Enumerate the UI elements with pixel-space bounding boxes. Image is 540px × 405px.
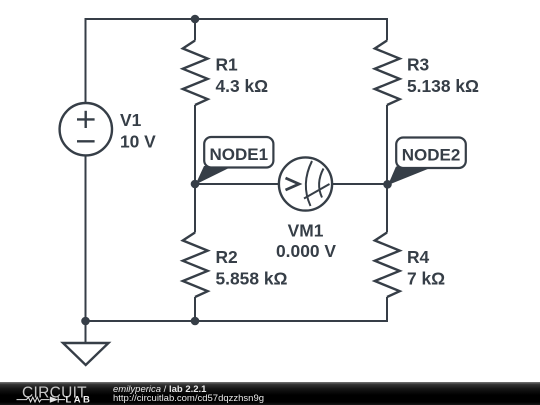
- svg-text:V1: V1: [120, 110, 142, 130]
- footer bar: [0, 382, 540, 405]
- svg-text:LAB: LAB: [66, 394, 93, 405]
- node NODE2 label: [388, 138, 466, 186]
- svg-text:5.858 kΩ: 5.858 kΩ: [216, 269, 288, 289]
- svg-text:R2: R2: [216, 247, 238, 267]
- junction dot bottom rail / ground: [81, 317, 90, 326]
- ground: [63, 343, 109, 365]
- svg-text:R4: R4: [407, 247, 430, 267]
- svg-text:0.000 V: 0.000 V: [276, 241, 336, 261]
- label R2 value: [216, 247, 288, 289]
- resistor R3: [375, 41, 400, 106]
- junction dot NODE1: [191, 180, 200, 189]
- svg-text:10 V: 10 V: [120, 132, 156, 152]
- wire voltmeter left lead: [195, 183, 279, 185]
- node NODE1 label: [196, 137, 274, 185]
- CircuitLab logo: [0, 382, 105, 405]
- svg-text:VM1: VM1: [288, 220, 324, 240]
- svg-text:R1: R1: [216, 54, 239, 74]
- resistor R1: [183, 41, 208, 106]
- label VM1 value: [276, 220, 336, 261]
- wire bottom rail: [86, 297, 388, 321]
- junction dot top rail / R1: [191, 15, 200, 24]
- voltmeter VM1: [279, 157, 332, 210]
- junction dot bottom rail / R2: [191, 317, 200, 326]
- junction dot NODE2: [383, 180, 392, 189]
- voltage source V1: [60, 103, 112, 155]
- label R4 value: [407, 247, 445, 289]
- wire left branch below V1: [85, 156, 87, 343]
- svg-text:5.138 kΩ: 5.138 kΩ: [407, 76, 479, 96]
- resistor R2: [183, 233, 208, 298]
- svg-text:4.3 kΩ: 4.3 kΩ: [216, 76, 269, 96]
- wire R2 bottom lead: [194, 297, 196, 321]
- resistor R4: [375, 233, 400, 298]
- wire R1 bottom to R2 top (through NODE1): [194, 105, 196, 233]
- wire voltmeter right lead: [333, 183, 388, 185]
- label R3 value: [407, 54, 479, 96]
- svg-text:NODE1: NODE1: [210, 145, 269, 164]
- svg-text:R3: R3: [407, 54, 430, 74]
- wire R1 top lead: [194, 19, 196, 41]
- wire top rail: [86, 19, 388, 104]
- wire R3 bottom to R4 top (through NODE2): [386, 105, 388, 233]
- label R1 value: [216, 54, 269, 96]
- label V1 value: [120, 110, 156, 152]
- svg-text:7 kΩ: 7 kΩ: [407, 269, 445, 289]
- svg-text:NODE2: NODE2: [402, 146, 461, 165]
